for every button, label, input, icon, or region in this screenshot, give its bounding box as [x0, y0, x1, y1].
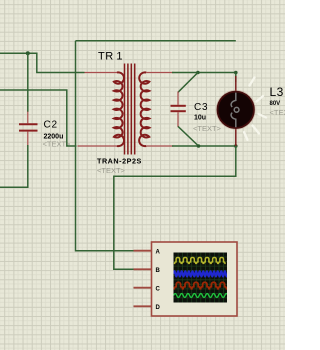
- svg-text:TRAN-2P2S: TRAN-2P2S: [97, 157, 142, 166]
- oscilloscope pin B: [134, 268, 152, 270]
- wire: branch down to C2: [27, 53, 29, 112]
- wire: lamp top stub: [235, 73, 237, 83]
- svg-text:B: B: [156, 268, 161, 274]
- trace channel D green: [174, 294, 228, 298]
- trace channel A yellow: [174, 258, 226, 264]
- wire: C2 bottom to left edge: [0, 145, 28, 187]
- pin TR1 secondary bottom: [146, 145, 173, 147]
- pin TR1 primary bottom: [78, 145, 118, 147]
- transformer TR1: [78, 64, 174, 155]
- lamp L3: [216, 76, 266, 146]
- svg-text:D: D: [156, 305, 161, 311]
- node: junction dot net1/C2: [26, 51, 30, 55]
- lamp bottom pin: [235, 127, 237, 146]
- lamp body: [216, 90, 255, 129]
- trace channel C red: [174, 282, 227, 288]
- lamp filament: [231, 93, 239, 128]
- wire: diagonal C3 bottom: [178, 126, 199, 146]
- node: junction C3 bottom: [197, 144, 201, 148]
- secondary winding: [139, 72, 149, 146]
- oscilloscope pin A: [134, 250, 152, 252]
- lamp rays: [244, 78, 266, 141]
- wire: net1 left feed top: [0, 53, 85, 72]
- wire: top rail: [76, 40, 236, 42]
- svg-text:<TEXT>: <TEXT>: [193, 124, 222, 133]
- wire: secondary top to lamp column: [172, 72, 236, 74]
- oscilloscope body: [152, 242, 238, 316]
- oscilloscope pin C: [134, 287, 152, 289]
- capacitor C2: [19, 112, 38, 147]
- svg-text:C: C: [156, 287, 161, 293]
- svg-text:<TEXT>: <TEXT>: [270, 108, 286, 117]
- screen grid: [174, 253, 228, 303]
- wire: diagonal to C3 top: [178, 73, 198, 93]
- pin TR1 primary top: [85, 72, 118, 74]
- trace channel B blue: [174, 271, 228, 276]
- wire: secondary bottom rail: [172, 145, 236, 147]
- oscilloscope pin D: [134, 305, 152, 307]
- wire: bottom return to scope B: [114, 146, 236, 269]
- node: junction lamp bottom: [234, 144, 238, 148]
- svg-text:C2: C2: [44, 120, 58, 131]
- primary winding: [114, 72, 124, 146]
- wire: vertical to scope A: [76, 41, 135, 251]
- node: junction secondary/C3 top: [196, 71, 200, 75]
- svg-text:10u: 10u: [194, 115, 206, 122]
- svg-text:80V: 80V: [270, 101, 281, 107]
- pin TR1 secondary top: [146, 72, 173, 74]
- svg-text:<TEXT>: <TEXT>: [97, 166, 126, 175]
- svg-text:A: A: [156, 249, 161, 255]
- svg-text:C3: C3: [194, 102, 208, 113]
- capacitor C3: [171, 92, 186, 128]
- lamp top pin: [235, 76, 237, 93]
- node: junction top rail/lamp: [234, 71, 238, 75]
- svg-text:L3: L3: [270, 85, 284, 99]
- svg-text:TR 1: TR 1: [98, 51, 123, 63]
- core: [125, 64, 135, 155]
- wire: net2 left feed to primary bottom: [0, 90, 77, 146]
